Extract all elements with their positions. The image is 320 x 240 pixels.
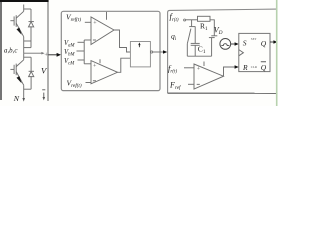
svg-text:N: N: [13, 94, 20, 103]
svg-text:SET: SET: [251, 37, 257, 41]
U1 output wire: [114, 30, 130, 52]
wire: converter to modulator (arrow): [48, 54, 57, 56]
minus sign of V: [42, 89, 45, 91]
V reference arrow (down): [43, 93, 45, 98]
up-arrow glyph inside: [138, 44, 140, 47]
logic block (inner box): [130, 42, 150, 67]
op-amp U4 (timing comparator): [194, 62, 224, 90]
oscillator (pulse source): [220, 39, 231, 50]
wire to - input: [188, 83, 194, 85]
arrowhead Q1 emitter: [17, 28, 22, 35]
green edge artifact: [276, 0, 278, 106]
svg-text:a,b,c: a,b,c: [4, 48, 17, 55]
resistor R1: [198, 16, 211, 21]
transistor Q1 (upper IGBT): [10, 5, 23, 54]
op-amp U2 (bottom comparator, modulator): [86, 59, 118, 84]
timing box (right): [168, 9, 278, 93]
modulator box (middle): [61, 11, 160, 90]
output bubble + wire to timing box: [151, 51, 153, 53]
wire osc to SR latch: [231, 43, 236, 45]
op-amp U1 (top comparator): [84, 12, 114, 45]
arrowhead Q2 emitter: [17, 76, 22, 83]
switch q_i: [187, 20, 195, 56]
wire to + input: [184, 67, 194, 69]
battery V_D: [209, 36, 217, 56]
converter box (left): [0, 1, 49, 101]
ground rail: [187, 55, 211, 57]
U4 output to R input: [224, 67, 236, 76]
Q output arrow: [270, 41, 274, 43]
clock wedge: [239, 50, 244, 56]
svg-text:CLR: CLR: [251, 65, 258, 69]
capacitor C1: [191, 27, 200, 57]
SR latch U3: [239, 33, 270, 71]
wire resistor to battery: [210, 20, 214, 36]
node terminal circle: [184, 19, 186, 21]
arrowhead leg bottom (to N): [22, 98, 25, 102]
svg-text:+: +: [44, 51, 48, 58]
phase tap wire + arrow: [24, 52, 42, 54]
diode D1 (upper freewheel): [24, 9, 34, 48]
bus ticks and bus: [77, 40, 92, 64]
svg-text:Q: Q: [261, 39, 267, 48]
svg-text:R: R: [242, 63, 248, 72]
svg-text:Q: Q: [261, 63, 267, 72]
diode D2 (lower freewheel): [24, 57, 34, 89]
svg-text:S: S: [243, 39, 247, 48]
wire node to resistor: [186, 19, 198, 21]
transistor Q2 (lower IGBT): [10, 53, 23, 98]
U2 output wire: [118, 58, 131, 72]
